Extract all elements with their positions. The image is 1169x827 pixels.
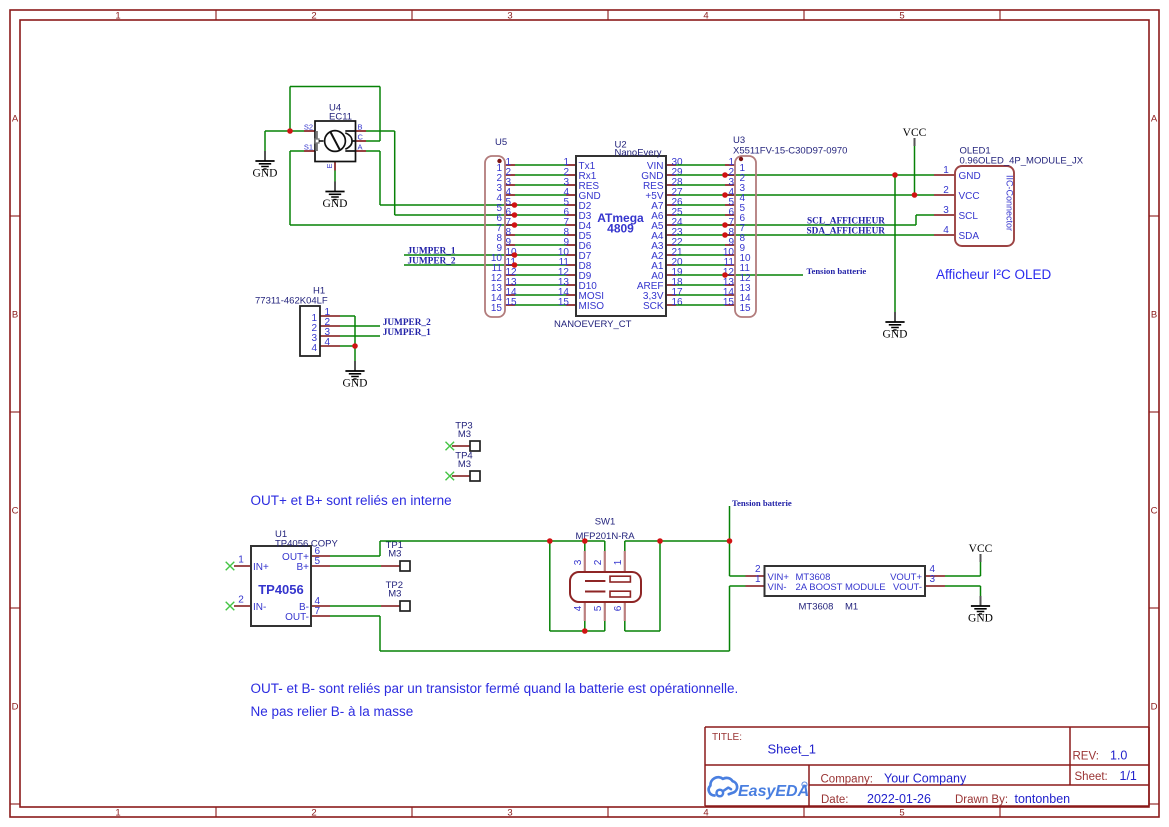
wire U5.6-U2.6 (515, 214, 566, 216)
junction rail x=660 (657, 538, 663, 544)
svg-text:1.0: 1.0 (1110, 749, 1127, 763)
svg-text:2: 2 (238, 595, 244, 606)
wire SW1 pin4 drop (584, 621, 586, 631)
power VCC top (903, 127, 927, 146)
svg-text:VCC: VCC (903, 127, 927, 139)
junction U3 pin 12 (722, 272, 728, 278)
wire U5.15-U2.15 (515, 304, 566, 306)
wire SCL to OLED1.3 (916, 214, 934, 216)
svg-text:JUMPER_2: JUMPER_2 (383, 318, 431, 328)
svg-text:R: R (803, 783, 806, 788)
wire S1 west (290, 150, 304, 152)
svg-text:JUMPER_2: JUMPER_2 (408, 257, 456, 267)
svg-text:IIC-Connector: IIC-Connector (1005, 175, 1015, 231)
svg-text:Sheet:: Sheet: (1075, 771, 1108, 783)
wire B+ to TP1 (330, 565, 381, 567)
wire U2.29-U3.2 (676, 174, 725, 176)
svg-text:VCC: VCC (959, 191, 980, 202)
wire U2.20-U3.11 (676, 264, 725, 266)
wire OUT- long bottom rail (380, 650, 730, 652)
wire VOUT- to GND (945, 585, 981, 587)
svg-text:Sheet_1: Sheet_1 (768, 742, 816, 757)
wire SW1 pin1 riser (624, 541, 626, 551)
svg-text:77311-462K04LF: 77311-462K04LF (255, 296, 328, 307)
wire Tension batterie vertical (729, 506, 731, 576)
svg-text:1: 1 (755, 574, 761, 585)
wire SW1 pin2 riser (604, 541, 606, 551)
wire OUT+ rail left (380, 540, 605, 542)
connector U5 (485, 137, 517, 317)
junction H1 pin4 node (352, 343, 358, 349)
svg-text:2: 2 (311, 808, 316, 819)
svg-text:A: A (358, 143, 363, 152)
svg-text:5: 5 (899, 808, 904, 819)
junction rail x=584.8 (582, 538, 588, 544)
svg-text:2: 2 (943, 185, 949, 196)
wire pin B to U5 pin6 (395, 214, 515, 216)
wire H1 pin2 JUMPER_2 (340, 325, 380, 327)
wire top loop horizontal (290, 86, 380, 88)
svg-text:NanoEvery: NanoEvery (615, 148, 662, 159)
wire pin A vertical (379, 151, 381, 205)
boost module M1 MT3608 (746, 564, 946, 612)
svg-text:M1: M1 (845, 602, 858, 613)
wire U5.2-U2.2 (515, 174, 566, 176)
svg-text:MT3608: MT3608 (799, 602, 834, 613)
wire S1 to U5 pin7 (290, 224, 515, 226)
wire H1 pin1-pin4 vertical (354, 316, 356, 346)
wire U5.7-U2.7 (515, 224, 566, 226)
wire SW1 pin5 drop (604, 621, 606, 631)
svg-text:B: B (12, 310, 18, 321)
junction U3 pin 4 (722, 192, 728, 198)
wire S2 to GND net (265, 130, 304, 132)
svg-text:NANOEVERY_CT: NANOEVERY_CT (554, 319, 632, 330)
svg-text:SDA: SDA (959, 231, 980, 242)
svg-text:TITLE:: TITLE: (712, 732, 742, 743)
svg-text:15: 15 (558, 297, 570, 308)
wire U2.17-U3.14 (676, 294, 725, 296)
connector H1 (255, 286, 340, 357)
wire JUMPER_2 to U5 pin11 (404, 264, 515, 266)
svg-text:JUMPER_1: JUMPER_1 (383, 328, 431, 338)
wire U5.14-U2.14 (515, 294, 566, 296)
svg-text:C: C (12, 506, 19, 517)
junction U5 pin5 (512, 202, 518, 208)
svg-text:Afficheur I²C OLED: Afficheur I²C OLED (936, 267, 1052, 282)
wire VCC riser (980, 562, 982, 576)
svg-text:4: 4 (311, 343, 317, 354)
svg-text:GND: GND (883, 329, 908, 341)
wire B- to TP2 (330, 605, 381, 607)
svg-text:15: 15 (506, 297, 518, 308)
svg-text:Tension batterie: Tension batterie (732, 498, 792, 508)
wire U5.1-U2.1 (515, 164, 566, 166)
svg-text:SW1: SW1 (595, 517, 616, 528)
wire SW1 bottom rail right (625, 630, 660, 632)
wire U2.23-U3.8 (676, 234, 725, 236)
svg-text:2022-01-26: 2022-01-26 (867, 792, 931, 806)
svg-text:2: 2 (593, 559, 604, 565)
wire junction riser to top loop (289, 87, 291, 132)
junction U3 pin 2 (722, 172, 728, 178)
svg-text:16: 16 (672, 297, 684, 308)
svg-text:SDA_AFFICHEUR: SDA_AFFICHEUR (807, 227, 886, 237)
svg-text:JUMPER_1: JUMPER_1 (408, 247, 456, 257)
svg-text:VOUT-: VOUT- (893, 582, 922, 593)
svg-text:1: 1 (613, 559, 624, 565)
wire top loop down to pin C (379, 87, 381, 142)
svg-text:IN-: IN- (253, 602, 266, 613)
svg-text:S2: S2 (304, 123, 313, 132)
wire SW1 pin6 drop (624, 621, 626, 631)
wire U2.30-U3.1 (676, 164, 725, 166)
svg-text:VCC: VCC (969, 543, 993, 555)
svg-text:U5: U5 (495, 137, 507, 148)
ground GND below U4 (323, 182, 348, 211)
svg-text:4: 4 (573, 605, 584, 611)
logo EasyEDA (709, 777, 809, 800)
svg-text:U3: U3 (733, 135, 745, 146)
svg-text:OUT+ et B+ sont reliés en inte: OUT+ et B+ sont reliés en interne (251, 493, 452, 508)
wire S1 vertical (289, 151, 291, 225)
junction U5 pin10 (512, 252, 518, 258)
svg-text:S1: S1 (304, 143, 313, 152)
charger module U1 TP4056 (226, 529, 339, 626)
wire VCC drop (914, 146, 916, 195)
wire H1 pin1 east (340, 315, 355, 317)
wire VOUT+ to VCC (945, 575, 981, 577)
svg-text:3: 3 (943, 205, 949, 216)
wire U5.13-U2.13 (515, 284, 566, 286)
svg-text:B: B (358, 123, 363, 132)
wire U2.24-U3.7 (676, 224, 725, 226)
test point TP1 (381, 540, 410, 571)
svg-text:Date:: Date: (821, 794, 849, 806)
svg-text:SCL_AFFICHEUR: SCL_AFFICHEUR (807, 217, 885, 227)
junction rail x=729.5 (727, 538, 733, 544)
wire U5.3-U2.3 (515, 184, 566, 186)
wire U5.10-U2.10 (515, 254, 566, 256)
svg-text:5: 5 (899, 11, 904, 22)
svg-text:3: 3 (507, 808, 512, 819)
wire U2.28-U3.3 (676, 184, 725, 186)
svg-text:Drawn By:: Drawn By: (955, 794, 1008, 806)
svg-text:GND: GND (343, 378, 368, 390)
wire H1 pin4 to GND (340, 345, 355, 347)
svg-text:M3: M3 (458, 459, 471, 470)
svg-text:4809: 4809 (607, 222, 634, 236)
svg-text:OUT- et B- sont reliés par un: OUT- et B- sont reliés par un transistor… (251, 681, 739, 696)
junction U5 pin7 (512, 222, 518, 228)
svg-text:Your Company: Your Company (884, 772, 967, 786)
svg-text:3: 3 (573, 559, 584, 565)
svg-text:M3: M3 (458, 429, 471, 440)
svg-text:TP4056: TP4056 (258, 582, 304, 597)
svg-text:0.96OLED_4P_MODULE_JX: 0.96OLED_4P_MODULE_JX (960, 156, 1084, 167)
wire GND drop left of U4 (264, 131, 266, 151)
wire SW1 left drop (549, 541, 551, 631)
svg-text:SCK: SCK (643, 301, 664, 312)
wire Tension batterie U3.12 (725, 274, 803, 276)
junction U5 pin6 (512, 212, 518, 218)
switch SW1 MFP201N-RA (570, 517, 641, 622)
svg-text:C: C (1151, 506, 1158, 517)
svg-text:GND: GND (968, 613, 993, 625)
svg-text:1: 1 (115, 808, 120, 819)
svg-text:M3: M3 (388, 549, 401, 560)
wire +5V net U3.4 to OLED1.2 (725, 194, 934, 196)
wire H1 GND drop (354, 346, 356, 361)
wire to VIN- stub (730, 585, 746, 587)
junction bottom rail pin4 (582, 628, 588, 634)
svg-text:E: E (325, 163, 334, 168)
svg-text:1: 1 (238, 555, 244, 566)
connector U3 (723, 135, 848, 317)
junction U5 pin11 (512, 262, 518, 268)
wire OUT- drop (379, 616, 381, 651)
svg-text:15: 15 (740, 303, 752, 314)
wire GND drop at M1 (980, 586, 982, 596)
wire GND drop at OLED (894, 175, 896, 312)
svg-text:Company:: Company: (821, 774, 873, 786)
wire U5.11-U2.11 (515, 264, 566, 266)
junction VCC-OLED node (912, 192, 918, 198)
svg-text:REV:: REV: (1073, 751, 1099, 763)
wire U2.18-U3.13 (676, 284, 725, 286)
svg-text:Tension batterie: Tension batterie (807, 266, 867, 276)
svg-text:4: 4 (943, 225, 949, 236)
svg-text:1: 1 (943, 165, 949, 176)
wire to VIN+ stub (730, 575, 746, 577)
wire SCL jog up (915, 215, 917, 225)
wire pin B east (366, 130, 395, 132)
svg-text:B+: B+ (296, 562, 309, 573)
wire U5.4-U2.4 (515, 194, 566, 196)
title block (705, 727, 1149, 806)
svg-text:1: 1 (115, 11, 120, 22)
svg-text:M3: M3 (388, 589, 401, 600)
test point TP2 (381, 580, 410, 611)
wire U2.27-U3.4 (676, 194, 725, 196)
test point TP4 (446, 450, 481, 481)
wire U2.22-U3.9 (676, 244, 725, 246)
junction U3 pin 7 (722, 222, 728, 228)
svg-text:3: 3 (507, 11, 512, 22)
wire E pin to GND (334, 171, 336, 182)
wire U2.26-U3.5 (676, 204, 725, 206)
wire SW1 right drop (659, 541, 661, 631)
module U2 NanoEvery ATmega4809 (554, 140, 683, 331)
test point TP3 (446, 420, 481, 451)
wire VIN- riser (729, 586, 731, 651)
svg-text:4: 4 (703, 11, 708, 22)
svg-text:6: 6 (613, 605, 624, 611)
ground GND left of U4 (253, 151, 278, 180)
wire OUT+ riser (379, 541, 381, 556)
svg-text:OUT-: OUT- (285, 612, 309, 623)
wire U5.5-U2.5 (515, 204, 566, 206)
wire pin A east (366, 150, 380, 152)
wire GND net U3.2 to OLED1.1 (725, 174, 934, 176)
svg-text:3: 3 (930, 574, 936, 585)
svg-text:GND: GND (959, 171, 981, 182)
wire OUT- east (330, 615, 380, 617)
svg-text:C: C (358, 133, 364, 142)
wire H1 pin3 JUMPER_1 (340, 335, 380, 337)
svg-text:7: 7 (315, 606, 321, 617)
wire SW1 bottom rail left (550, 630, 605, 632)
svg-text:15: 15 (491, 303, 503, 314)
svg-text:2: 2 (311, 11, 316, 22)
svg-text:D: D (1151, 702, 1158, 713)
wire SW1 pin3 riser (584, 541, 586, 551)
svg-text:EasyEDA: EasyEDA (738, 783, 809, 800)
wire pin B vertical (394, 131, 396, 215)
junction U3 pin 8 (722, 232, 728, 238)
wire rail right (625, 540, 730, 542)
wire SDA U3.8 to OLED1.4 (725, 234, 934, 236)
svg-text:D: D (12, 702, 19, 713)
svg-text:B: B (1151, 310, 1157, 321)
rotary encoder U4 (304, 103, 366, 171)
svg-text:4: 4 (325, 337, 331, 348)
power VCC bottom right (969, 543, 993, 562)
svg-text:EC11: EC11 (329, 112, 352, 123)
junction S2 node (287, 128, 293, 134)
svg-text:tontonben: tontonben (1015, 792, 1071, 806)
wire U5.12-U2.12 (515, 274, 566, 276)
svg-text:5: 5 (315, 556, 321, 567)
wire U2.19-U3.12 (676, 274, 725, 276)
wire U2.25-U3.6 (676, 214, 725, 216)
junction rail x=549.8 (547, 538, 553, 544)
wire OUT+ east (330, 555, 380, 557)
svg-text:IN+: IN+ (253, 562, 269, 573)
ground GND bottom right (968, 596, 993, 625)
wire JUMPER_1 to U5 pin10 (404, 254, 515, 256)
wire U2.16-U3.15 (676, 304, 725, 306)
svg-text:1/1: 1/1 (1120, 769, 1137, 783)
svg-text:2A BOOST MODULE: 2A BOOST MODULE (796, 582, 886, 593)
wire U5.9-U2.9 (515, 244, 566, 246)
ground GND below OLED net (883, 312, 908, 341)
ground GND below H1 (343, 361, 368, 390)
svg-text:Ne pas relier B- à la masse: Ne pas relier B- à la masse (251, 704, 414, 719)
svg-text:SCL: SCL (959, 211, 979, 222)
svg-text:A: A (1151, 114, 1158, 125)
wire pin A to U5 pin5 (380, 204, 515, 206)
wire pin C stub-extension (366, 140, 380, 142)
svg-text:5: 5 (593, 605, 604, 611)
svg-text:A: A (12, 114, 19, 125)
wire SCL U3.7 east (725, 224, 916, 226)
svg-text:MISO: MISO (579, 301, 605, 312)
module OLED1 0.96OLED_4P_MODULE_JX (934, 146, 1084, 247)
wire U5.8-U2.8 (515, 234, 566, 236)
svg-text:X5511FV-15-C30D97-0970: X5511FV-15-C30D97-0970 (733, 146, 847, 157)
svg-text:GND: GND (253, 168, 278, 180)
wire U2.21-U3.10 (676, 254, 725, 256)
svg-text:TP4056 COPY: TP4056 COPY (275, 538, 338, 549)
svg-text:15: 15 (723, 297, 735, 308)
svg-text:GND: GND (323, 198, 348, 210)
svg-text:VIN-: VIN- (768, 582, 787, 593)
svg-text:4: 4 (703, 808, 708, 819)
junction GND-OLED node (892, 172, 898, 178)
